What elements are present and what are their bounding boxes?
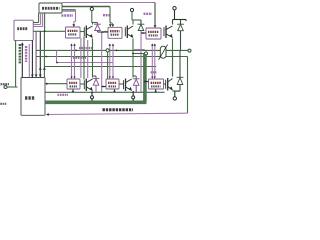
junction at 92,92: [91, 91, 93, 93]
wire bundle h3: [33, 26, 42, 28]
wire V1 collector up: [92, 23, 94, 25]
wire stub x186: [185, 20, 187, 22]
arrow down leg3 a: [151, 77, 153, 79]
label -150V: [58, 94, 69, 96]
wire collector node leg2: [132, 19, 141, 21]
wire bundle v3: [42, 13, 44, 27]
wire gate column leg1: [83, 37, 85, 80]
wire C3 down: [174, 10, 176, 20]
wire VD5 anode down: [180, 31, 182, 51]
label mid small 1: [79, 47, 93, 49]
wire into U1 top: [73, 22, 75, 25]
junction at 45,31: [44, 30, 46, 32]
wire controller feed x29.3: [28, 44, 30, 78]
arrow into U4 left: [46, 83, 48, 85]
wire stub U2b: [110, 22, 113, 24]
label U1 row1: [68, 30, 78, 32]
diode VD2: [93, 79, 100, 86]
label U3 row2: [149, 34, 159, 36]
arrow up leg3 b: [154, 43, 156, 45]
wire to U3 input: [141, 32, 146, 34]
wire pair leg2 b: [112, 44, 114, 76]
wire collector node leg1: [92, 22, 98, 24]
wire VD6 cathode up: [179, 50, 181, 77]
label 控制器: [25, 96, 35, 99]
wire stub at E3: [175, 90, 180, 92]
wire x87.7: [87, 40, 89, 78]
wire bundle h1: [33, 22, 38, 24]
label U4 row2: [70, 85, 78, 87]
wire purple stub above V: [134, 49, 145, 51]
junction at 76,50: [75, 50, 77, 52]
label U4 row1: [69, 82, 78, 84]
label PWM: [1, 83, 10, 85]
wire V1 emitter down: [92, 39, 94, 77]
wire drive-line x22.3: [21, 44, 23, 78]
driver module U1 M57962: [66, 27, 81, 38]
wire fault-line x15.6: [15, 40, 17, 87]
wire collector node leg3: [173, 19, 187, 21]
driver module U4 M57962: [67, 79, 80, 89]
arrow into U6: [146, 80, 148, 82]
label +15V U6: [151, 71, 157, 73]
sensor TA slashed oval: [160, 46, 166, 58]
arrow down leg2 b: [112, 77, 114, 79]
driver module U3 M57962: [146, 28, 161, 39]
wire C1 down: [91, 11, 93, 23]
junction at 57,62: [56, 62, 58, 64]
terminal PWM input: [4, 86, 7, 89]
wire VD1 cathode up: [97, 23, 99, 25]
wire thin bottom rail: [45, 91, 165, 93]
label U6 row2: [151, 85, 161, 87]
wire right vertical: [187, 57, 189, 114]
wire fault feedback bottom: [47, 113, 188, 114]
wire E2 to bus: [132, 99, 134, 101]
wire x101.7: [101, 32, 103, 92]
wire V3 emitter down: [132, 39, 134, 77]
diode VD5: [177, 24, 184, 31]
transistor V1 IGBT: [84, 26, 92, 39]
label U5 row1: [108, 82, 117, 84]
driver module U6 M57962: [149, 79, 164, 89]
wire to terminal V: [133, 53, 144, 55]
junction at 84,56: [83, 56, 85, 58]
wire VD6 anode down: [179, 85, 181, 92]
arrow up at bus x44: [43, 67, 46, 70]
label U1 row2: [68, 33, 77, 35]
wire U4 bottom stub: [72, 89, 74, 92]
wire pair leg3 b: [154, 44, 156, 76]
label 2组隔离电源: [42, 7, 60, 10]
terminal E1: [91, 96, 94, 99]
wire jog to U1: [74, 21, 76, 23]
label U6 row1: [151, 82, 162, 84]
terminal C3: [173, 7, 176, 10]
wire V5 collector up: [172, 20, 174, 25]
label U3 row1: [148, 31, 159, 33]
junction C1 on bus: [91, 6, 93, 8]
wire emitter node leg3: [173, 90, 181, 92]
arrow up leg1 a: [70, 43, 72, 45]
arrow down leg1 b: [73, 77, 75, 79]
arrow into U5: [103, 85, 105, 87]
wire C2 down: [131, 12, 133, 20]
wire to terminal E3: [174, 91, 176, 97]
label U5 row2: [109, 85, 117, 87]
arrow down leg2 a: [109, 77, 111, 79]
arrow down leg3 b: [154, 77, 156, 79]
diode VD4: [133, 79, 140, 86]
wire supply to driver U1 purple: [62, 10, 76, 12]
arrow up leg2 b: [112, 43, 114, 45]
arrow up leg2 a: [109, 43, 111, 45]
label vertical 驱动信号: [25, 46, 27, 62]
wire bundle h2: [33, 24, 40, 26]
box U10 controller 控制器: [21, 78, 45, 116]
wire VD3 anode down: [140, 31, 142, 93]
wire supply to driver U1 input: [33, 30, 66, 32]
wire mid purple bus: [57, 62, 113, 64]
label vertical 过流保护信号: [19, 44, 21, 64]
wire V3 collector up: [132, 20, 134, 25]
arrow into U1 top: [72, 24, 75, 27]
label U2 row1: [110, 30, 120, 32]
wire U5 gate out: [119, 83, 123, 85]
wire into U5 left: [102, 86, 106, 88]
transistor V3 IGBT: [125, 26, 133, 39]
wire controller feed x44: [43, 31, 45, 77]
wire output bus y50: [36, 49, 188, 51]
wire VD1 anode down: [97, 31, 99, 33]
label mid small 2: [73, 57, 86, 59]
wire V6 collector up: [172, 50, 174, 76]
wire into U2 left: [104, 31, 108, 33]
wire VD2 cathode up: [95, 76, 97, 79]
transistor V5 IGBT: [164, 26, 173, 39]
diode VD3: [138, 24, 145, 30]
wire controller feed x36: [35, 31, 37, 77]
wire bundle v2: [40, 13, 42, 25]
arrow down leg1 a: [70, 77, 72, 79]
wire top green bus: [62, 6, 110, 8]
diode VD1: [94, 24, 101, 30]
box U8 isolated-supply 2组隔离电源: [39, 3, 62, 13]
terminal E3: [173, 97, 176, 100]
wire VD5 cathode up: [180, 20, 182, 25]
junction at 108,56: [107, 56, 109, 58]
transistor V4 IGBT: [124, 79, 132, 92]
wire E1 to bus: [91, 99, 93, 101]
wire VD4 anode down: [135, 85, 137, 92]
junction at 145,81.5: [144, 81, 146, 83]
wire mid green bus 2: [44, 66, 156, 68]
arrow into U2 top 1: [109, 24, 112, 27]
wire thick bottom bus: [45, 101, 146, 105]
wire V2 collector up: [92, 76, 94, 78]
transistor V6 IGBT: [166, 78, 173, 91]
wire V4 collector up: [132, 76, 134, 78]
wire collector node leg2 bottom: [133, 75, 136, 77]
label +15V leg2: [103, 14, 110, 16]
terminal output V: [144, 52, 147, 55]
junction at 133,53.5: [132, 53, 134, 55]
arrow into U3 top: [154, 25, 157, 28]
wire U4 gate out: [80, 83, 84, 85]
wire collector node leg1 bottom: [93, 75, 97, 77]
wire V5 emitter down: [172, 39, 174, 77]
wire vertical x75 to U1: [75, 10, 77, 22]
wire VD4 cathode up: [135, 76, 137, 79]
wire V4 emitter down: [132, 91, 134, 96]
arrow into controller 2: [35, 75, 38, 78]
wire PWM to column: [7, 86, 18, 88]
wire VD2 anode down: [95, 85, 97, 92]
junction at 103,32: [102, 31, 104, 33]
wire vertical x155 to U3: [154, 3, 156, 26]
wire U6 gate out: [164, 83, 166, 85]
wire controller feed x32.4: [31, 40, 33, 77]
wire top purple bus: [62, 2, 155, 4]
wire pair leg2 a: [109, 44, 111, 76]
wire stub U2a: [109, 22, 111, 24]
wire controller to U4: [45, 83, 67, 85]
arrow up into U6 bottom: [155, 90, 157, 92]
junction at 133,92: [132, 91, 134, 93]
wire bundle v4: [44, 13, 46, 31]
wire U5 bottom stub: [114, 89, 116, 92]
transistor V2 IGBT: [84, 79, 92, 92]
wire into U6 left: [145, 81, 149, 83]
junction at 116,50: [116, 50, 118, 52]
junction at 46,56: [46, 56, 48, 58]
arrow up leg3 a: [151, 43, 153, 45]
wire pair leg1 b: [74, 44, 76, 76]
wire thick vertical bus: [143, 54, 147, 102]
terminal C2: [130, 8, 133, 11]
arrow up at bus x40: [39, 67, 42, 70]
arrow into switching supply bottom: [21, 42, 24, 45]
junction at 143,33: [142, 32, 144, 34]
wire controller feed x40: [39, 31, 41, 77]
wire supply to driver U1: [62, 9, 76, 11]
label 开关电源: [17, 27, 27, 30]
diode VD6: [177, 77, 184, 84]
wire mid green bus 1: [36, 56, 188, 58]
terminal output W: [188, 49, 191, 52]
label U2 row2: [111, 34, 120, 36]
wire x80.9: [80, 38, 82, 78]
wire pair leg1 a: [71, 44, 73, 76]
arrow up into U5 bottom: [113, 90, 115, 92]
wire V2 emitter down: [92, 91, 94, 94]
wire to U2 input: [98, 31, 109, 33]
label +150V: [62, 14, 74, 17]
box U9 switching-power 开关电源: [14, 20, 33, 40]
wire to terminal E1: [91, 92, 93, 95]
wire VD3 cathode up: [140, 20, 142, 24]
label IGBT逆变器: [103, 108, 134, 111]
driver module U2 M57962: [108, 27, 122, 38]
wire bundle v1: [38, 13, 40, 23]
wire vertical x110 to U2: [109, 7, 111, 23]
arrow up leg1 b: [73, 43, 75, 45]
label left edge small: [0, 103, 6, 105]
wire U1 gate out: [80, 31, 84, 33]
arrow into controller 3: [39, 75, 42, 78]
driver module U5 M57962: [106, 79, 119, 89]
arrow into U2 top 2: [111, 24, 114, 27]
terminal output U: [106, 49, 109, 52]
label +15V leg3: [144, 13, 153, 15]
wire U6 bottom stub: [155, 89, 157, 92]
terminal C1: [90, 7, 93, 10]
wire pair leg3 a: [151, 44, 153, 76]
wire x107.6: [107, 52, 109, 79]
arrow up into U4 bottom: [72, 90, 74, 92]
wire v x56.5: [56, 50, 58, 62]
arrow into controller 1: [31, 75, 34, 78]
arrow into controller right: [46, 113, 49, 116]
terminal E2: [132, 96, 135, 99]
